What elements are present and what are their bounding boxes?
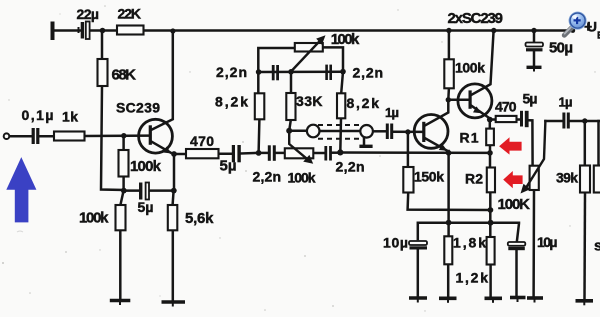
svg-text:5µ: 5µ: [523, 91, 538, 107]
svg-text:150k: 150k: [414, 169, 444, 185]
svg-text:1,8k: 1,8k: [453, 235, 486, 251]
svg-text:2,2n: 2,2n: [353, 65, 384, 81]
svg-text:1µ: 1µ: [385, 105, 399, 120]
svg-text:5µ: 5µ: [220, 158, 237, 175]
svg-text:8,2k: 8,2k: [215, 94, 248, 110]
svg-text:R2: R2: [465, 171, 483, 187]
svg-text:2,2n: 2,2n: [216, 64, 247, 80]
svg-text:10µ: 10µ: [383, 235, 408, 251]
svg-text:470: 470: [190, 133, 214, 149]
svg-text:2,2n: 2,2n: [336, 159, 365, 175]
svg-text:8,2k: 8,2k: [347, 95, 380, 111]
svg-text:s: s: [594, 238, 600, 255]
svg-text:100k: 100k: [79, 210, 109, 227]
svg-text:100k: 100k: [455, 60, 485, 76]
svg-text:2xSC239: 2xSC239: [448, 10, 504, 27]
svg-text:1k: 1k: [62, 109, 78, 125]
svg-text:5,6k: 5,6k: [185, 210, 214, 227]
svg-text:R1: R1: [460, 130, 479, 146]
svg-text:39k: 39k: [556, 170, 578, 186]
svg-text:22µ: 22µ: [77, 6, 100, 22]
svg-text:100k: 100k: [288, 170, 316, 186]
svg-text:1,2k: 1,2k: [456, 270, 489, 286]
svg-text:1µ: 1µ: [559, 95, 573, 110]
svg-text:22K: 22K: [118, 6, 142, 22]
svg-text:5µ: 5µ: [138, 199, 154, 215]
svg-text:100K: 100K: [498, 196, 531, 213]
svg-text:0,1µ: 0,1µ: [22, 107, 54, 123]
svg-text:33K: 33K: [296, 93, 323, 109]
svg-text:100k: 100k: [130, 158, 162, 175]
svg-text:SC239: SC239: [116, 100, 160, 116]
svg-text:10µ: 10µ: [537, 234, 558, 250]
svg-text:50µ: 50µ: [549, 40, 573, 57]
svg-text:68K: 68K: [112, 67, 137, 84]
svg-text:470: 470: [495, 99, 517, 115]
svg-text:2,2n: 2,2n: [253, 169, 282, 185]
svg-text:100k: 100k: [331, 31, 360, 48]
